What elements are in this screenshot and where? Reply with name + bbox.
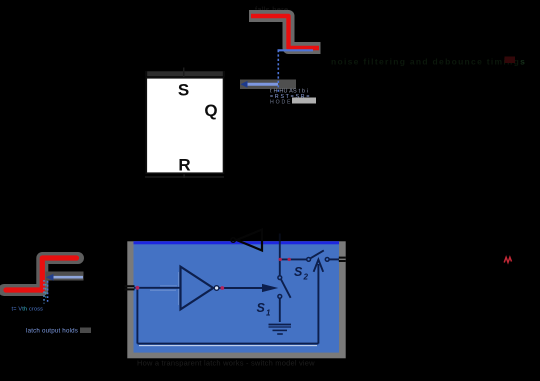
SR latch U1 bottom shadow line [145, 176, 224, 178]
waveform Vin (red rising step) [6, 258, 77, 290]
waveform Vout (red falling step) [251, 16, 319, 48]
svg-text:latch output holds: latch output holds [26, 328, 78, 335]
input stub (double line) [125, 285, 135, 287]
SR latch U1 S input stub [183, 68, 185, 78]
feedback wire bottom [137, 343, 318, 345]
svg-text:t= Vth cross: t= Vth cross [12, 307, 44, 313]
node: inverter output [220, 286, 224, 290]
switch S2 left contact [307, 258, 311, 262]
wire top vertical through border [279, 234, 281, 242]
annotation gray box [292, 98, 316, 104]
input wire [134, 287, 181, 289]
wire inverter to S1 with arrowhead [219, 287, 262, 289]
waveform Vout shadow [249, 16, 321, 48]
switch-model box shadow [127, 241, 345, 358]
threshold horizontal line [278, 49, 314, 51]
feedback wire left vertical [136, 288, 138, 344]
ground [269, 324, 292, 326]
svg-text:2: 2 [303, 273, 309, 282]
SR latch U1 body [146, 78, 223, 173]
switch S1 blade [281, 279, 291, 298]
switch S2 right contact [325, 258, 329, 262]
SR latch U1 top bar [145, 71, 225, 76]
inverter U2 [181, 267, 214, 310]
switch-model box top border [134, 241, 340, 244]
output stub (double line) [339, 257, 346, 259]
svg-text:Q: Q [204, 101, 217, 120]
wire S2 to output [329, 258, 339, 260]
annotation dashed vertical lines [43, 280, 45, 304]
annotation arrow to Q output [246, 83, 278, 86]
SR latch U1 R input stub [183, 174, 184, 178]
node dots on S2 wire [279, 258, 282, 261]
annotation halo behind blue level line [46, 272, 84, 281]
feedback wire right vertical [317, 264, 319, 344]
switch S1 bottom contact [278, 295, 282, 299]
switch S1 top contact [278, 276, 282, 280]
wire S1 to ground [279, 298, 281, 322]
svg-text:S: S [178, 81, 189, 100]
inverter U2 bubble [214, 286, 219, 291]
svg-text:H O D E: H O D E [270, 100, 291, 106]
svg-text:R: R [178, 156, 190, 175]
switch S2 blade [310, 250, 324, 258]
red squiggle mark [504, 257, 511, 262]
feedback arrowhead at S2 [314, 260, 324, 272]
annotation halo behind arrow to Q [240, 80, 296, 90]
svg-text:noise filtering and debounce t: noise filtering and debounce timings [331, 57, 526, 67]
svg-text:1: 1 [266, 309, 271, 318]
node: input junction [136, 286, 140, 290]
waveform Vin shadow [4, 258, 78, 290]
annotation gray smudge [80, 328, 91, 334]
white emboss highlights [160, 285, 177, 287]
svg-text:S: S [294, 265, 303, 279]
svg-text:How a transparent latch works: How a transparent latch works - switch m… [137, 359, 315, 368]
threshold dashed vertical line [277, 50, 279, 92]
switch-model box body [134, 241, 340, 352]
svg-text:S: S [257, 301, 266, 315]
wire junction to S2 [280, 258, 307, 260]
annotation blue level line with arrow [50, 276, 83, 279]
inverter U3 (top feedback, points left) [237, 230, 263, 251]
red mark right of green row [505, 57, 516, 64]
